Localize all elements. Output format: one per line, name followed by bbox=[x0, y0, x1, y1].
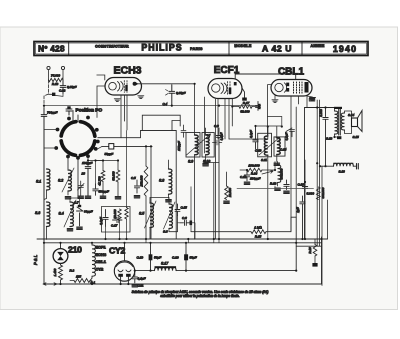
trimmer at Position PO bbox=[66, 109, 72, 115]
svg-text:R.14: R.14 bbox=[251, 172, 258, 176]
ground below S8 bbox=[166, 200, 172, 202]
tube CBL1 cathode circle bbox=[275, 83, 283, 91]
svg-text:S.4: S.4 bbox=[59, 212, 64, 216]
capacitor C13 bbox=[253, 126, 258, 149]
capacitor C6 bbox=[180, 220, 190, 225]
resistor 50.000 cathode bbox=[118, 209, 121, 221]
wire right edge vertical bbox=[321, 237, 323, 284]
svg-text:R.2: R.2 bbox=[70, 269, 75, 273]
svg-text:ECF1: ECF1 bbox=[96, 245, 107, 250]
svg-text:ECH3: ECH3 bbox=[96, 252, 107, 257]
wire switch left contact to bus bbox=[44, 129, 58, 131]
svg-text:S.6: S.6 bbox=[163, 230, 168, 234]
wire band top line A bbox=[37, 238, 328, 240]
trimmer pair padding caps bbox=[78, 181, 85, 195]
wire rail from S16 down bbox=[325, 165, 327, 167]
tube ECF1 grid arcs bbox=[221, 83, 227, 94]
svg-text:600.000: 600.000 bbox=[321, 187, 325, 198]
svg-text:A 42 U: A 42 U bbox=[262, 44, 292, 54]
ground below S2 bbox=[65, 197, 71, 199]
svg-text:0,1µF: 0,1µF bbox=[220, 132, 224, 140]
tube ECF1 screen square bbox=[234, 82, 237, 85]
capacitor below pot bbox=[284, 180, 289, 190]
wire band right inner segment bbox=[296, 245, 321, 247]
rotary wafer switch ring bbox=[61, 122, 95, 156]
resistor 10.000 right of S10 bbox=[225, 186, 229, 200]
svg-text:ECH3: ECH3 bbox=[113, 65, 141, 77]
capacitor C20 50uF bbox=[184, 254, 188, 260]
tube ECF1 pin wires bbox=[218, 99, 232, 140]
wire B+ rail pair bbox=[317, 100, 319, 246]
tube ECH3 anode bar bbox=[125, 85, 127, 91]
wire switch stem bus down-left bbox=[43, 129, 45, 131]
antenna terminal A bbox=[47, 66, 50, 69]
svg-text:10.000: 10.000 bbox=[228, 188, 232, 198]
svg-text:C.21: C.21 bbox=[138, 284, 144, 288]
svg-text:S.17: S.17 bbox=[161, 262, 169, 266]
capacitor C19 56uF bbox=[149, 254, 153, 260]
svg-text:S.1: S.1 bbox=[36, 180, 41, 184]
trimmer C10 bbox=[109, 144, 114, 149]
svg-text:1.400: 1.400 bbox=[53, 268, 57, 276]
tube CBL1 grid dotted electrodes bbox=[294, 82, 303, 94]
wire switch rotor stem up bbox=[73, 111, 78, 123]
capacitor 0,1uF CY2 bbox=[132, 271, 137, 283]
wire screen rail bbox=[295, 107, 297, 217]
capacitor 0,1uF at S10 bbox=[216, 128, 221, 239]
capacitor tone 0,1uF across primary bbox=[323, 108, 328, 167]
ground below 100uuF bbox=[85, 196, 91, 198]
capacitor C22 0,05uF bbox=[60, 80, 66, 93]
wire switch contact row 1 right bbox=[98, 131, 176, 239]
resistor right cathode bbox=[125, 208, 128, 220]
wire mid verticals to band bbox=[88, 160, 118, 162]
svg-text:50µµF: 50µµF bbox=[105, 152, 114, 156]
tube ECF1 grid dashed electrodes bbox=[228, 82, 231, 96]
resistor feedback right bbox=[313, 245, 317, 257]
svg-text:100µµF: 100µµF bbox=[82, 161, 92, 165]
wire mid AVC bus bbox=[44, 105, 258, 107]
terminal blob junction antenna bbox=[52, 93, 55, 96]
svg-text:Position PO: Position PO bbox=[76, 108, 103, 114]
capacitor C15 bbox=[175, 204, 180, 216]
svg-text:S.2: S.2 bbox=[58, 179, 63, 183]
wire rail right outer bbox=[321, 166, 323, 285]
coil S2 tunable bbox=[68, 170, 71, 191]
svg-text:0,05µF: 0,05µF bbox=[67, 85, 77, 89]
svg-text:PARIS: PARIS bbox=[190, 47, 203, 51]
S9 coil bbox=[195, 135, 199, 155]
svg-text:75.000: 75.000 bbox=[51, 74, 61, 78]
tube CBL1 envelope bbox=[271, 80, 312, 97]
tube CBL1 grid arc bbox=[284, 83, 286, 93]
arrow mains bottom-left bbox=[43, 283, 57, 285]
S12 trimmer caps bbox=[286, 128, 295, 137]
wire oscillator box inner bbox=[141, 121, 181, 131]
ground top of rails bbox=[309, 99, 315, 101]
wire S5 S6 bottoms bbox=[150, 198, 186, 240]
tube ECH3 cathode circle bbox=[109, 82, 117, 90]
speaker S15 bbox=[352, 118, 358, 127]
svg-text:S.14: S.14 bbox=[348, 113, 355, 117]
svg-text:0,1µF: 0,1µF bbox=[249, 130, 253, 138]
svg-text:28: 28 bbox=[81, 172, 86, 176]
output transformer secondary bbox=[341, 113, 344, 130]
tube CBL1 pin wires bbox=[275, 96, 307, 232]
output transformer primary bbox=[335, 111, 338, 134]
transformer bottom terminal bbox=[335, 136, 340, 138]
resistor 30.000 right bbox=[317, 187, 321, 200]
svg-text:C.6: C.6 bbox=[182, 216, 187, 220]
svg-text:0,1µF: 0,1µF bbox=[138, 277, 147, 281]
svg-text:C.12: C.12 bbox=[240, 175, 247, 179]
wire det out bbox=[274, 162, 276, 189]
capacitor on AVC bus at CBL1 bbox=[256, 102, 261, 111]
wire C6 link bbox=[178, 223, 196, 239]
ground below S12 bbox=[274, 163, 280, 165]
svg-text:52.000: 52.000 bbox=[240, 110, 250, 114]
tube ECF1 envelope bbox=[208, 79, 242, 99]
svg-text:C.22: C.22 bbox=[59, 89, 66, 93]
svg-text:C.8: C.8 bbox=[214, 124, 219, 128]
svg-text:50.000: 50.000 bbox=[112, 171, 116, 181]
wire AVC vertical from S9 bbox=[190, 187, 192, 232]
S11-S12 tuning arrow bbox=[259, 137, 280, 155]
resistor 75.000 R13 bbox=[49, 78, 64, 81]
wire ECH3 plate to S9 bbox=[137, 83, 195, 85]
svg-text:C.16: C.16 bbox=[298, 183, 305, 187]
wire ECH3 left frame bbox=[97, 75, 105, 118]
ground below 50.000 bbox=[115, 197, 121, 199]
wire ECF1 grid drop to S10 bbox=[205, 97, 220, 239]
wire detector feed bus bbox=[237, 188, 314, 190]
IF can S11 box bbox=[258, 133, 272, 157]
resistor 41.700 bbox=[101, 171, 105, 182]
svg-text:99µµF: 99µµF bbox=[84, 210, 93, 214]
svg-text:C.17: C.17 bbox=[111, 224, 118, 228]
ground below C7 bbox=[77, 227, 83, 229]
tube ECH3 plate dot bbox=[133, 82, 137, 86]
wire switch contact row 2 right with trimmer C10 bbox=[102, 146, 151, 238]
ground below CBL1 cathode bbox=[272, 100, 278, 103]
pilot lamp 210 bbox=[53, 249, 68, 264]
ground below CBL1 pin bbox=[310, 98, 316, 101]
coil S6 bbox=[169, 204, 172, 229]
title block frame bbox=[34, 42, 368, 56]
svg-text:CONSTRUCTEUR: CONSTRUCTEUR bbox=[95, 45, 129, 49]
wire osc coupling caps row bbox=[96, 161, 104, 185]
tube CBL1 screen squares bbox=[286, 83, 289, 87]
svg-text:250.000: 250.000 bbox=[140, 175, 144, 187]
wire switch bottom contacts down bbox=[68, 157, 88, 197]
ground below ECH3 left bbox=[114, 99, 120, 102]
svg-text:C.5: C.5 bbox=[131, 176, 136, 180]
ground below C12 bbox=[244, 182, 250, 184]
ground below 10.000 bbox=[224, 201, 230, 203]
wire switch row3 bbox=[98, 146, 103, 149]
wire ECH3 cathode network box bbox=[102, 207, 131, 233]
svg-text:R.16: R.16 bbox=[308, 247, 312, 254]
wire switch left lower contact bbox=[44, 147, 56, 149]
svg-text:C.13: C.13 bbox=[255, 149, 262, 153]
wire band bottom line bbox=[44, 283, 322, 285]
svg-text:500.000: 500.000 bbox=[280, 168, 284, 179]
svg-text:CBL1: CBL1 bbox=[96, 259, 107, 264]
wire S12 to CBL1 grid bbox=[268, 117, 282, 127]
svg-text:C.14: C.14 bbox=[280, 148, 287, 152]
svg-text:PHILIPS: PHILIPS bbox=[141, 43, 182, 53]
svg-text:0,1µF: 0,1µF bbox=[285, 132, 289, 140]
capacitor 500uuF bbox=[93, 184, 98, 195]
svg-text:R.13: R.13 bbox=[52, 82, 59, 86]
resistor 1.400 bbox=[59, 265, 63, 280]
resistor 250.000 bbox=[144, 166, 148, 196]
resistor 1 Mohm bbox=[251, 230, 266, 234]
wire right mid vertical x327 bbox=[327, 200, 329, 239]
coil S5 bbox=[150, 203, 153, 228]
ground below S10 bbox=[203, 164, 209, 166]
S10 side cap bbox=[213, 140, 222, 145]
ground below C5 bbox=[134, 196, 140, 198]
volume potentiometer coil bbox=[278, 165, 281, 183]
coil S8 bbox=[169, 169, 172, 194]
resistor 100.000 detector bbox=[247, 168, 262, 172]
resistor R17 52.000 bbox=[239, 105, 252, 109]
title block divider after PARIS bbox=[228, 42, 230, 56]
trimmer C7 99uuF bbox=[77, 207, 84, 226]
svg-text:CY2: CY2 bbox=[96, 267, 105, 272]
svg-text:C.20: C.20 bbox=[172, 256, 179, 260]
svg-text:500µµF: 500µµF bbox=[99, 190, 109, 194]
wire ECH3 pin3 long drop bbox=[121, 121, 125, 138]
resistor 50.000 osc bbox=[116, 170, 120, 182]
IF can S12 box bbox=[274, 137, 285, 156]
wire band top line B bbox=[44, 242, 322, 244]
coil S3 bbox=[47, 202, 50, 227]
S12 coil bbox=[277, 138, 280, 155]
wire osc grid drops bbox=[152, 145, 154, 147]
terminal below Rfb bbox=[314, 256, 316, 263]
tube ECH3 grid arcs bbox=[118, 82, 124, 92]
junction dots mid bbox=[43, 83, 336, 183]
ground below volume pot bbox=[275, 188, 281, 190]
svg-text:210: 210 bbox=[68, 245, 82, 255]
hum-bucking coil S16 bbox=[334, 163, 354, 166]
S9-S10 tuning arrow bbox=[187, 134, 211, 155]
filter choke S17 bbox=[155, 268, 177, 271]
wire band verticals misc bbox=[146, 202, 268, 243]
svg-text:S.16: S.16 bbox=[339, 170, 346, 174]
capacitor 100uuF bbox=[85, 167, 91, 196]
svg-text:MODELE: MODELE bbox=[234, 44, 251, 48]
tube ECF1 anode bar bbox=[229, 88, 232, 95]
svg-text:S.5: S.5 bbox=[139, 212, 144, 216]
ground below ECH3 right bbox=[138, 96, 144, 99]
tube CBL1 anode plate bbox=[305, 82, 309, 93]
tube ECH3 grid dashed electrodes bbox=[124, 81, 127, 93]
capacitor 0,1 osc bbox=[134, 180, 139, 193]
svg-text:R.15: R.15 bbox=[255, 235, 262, 239]
tube ECF1 cathode circle bbox=[212, 84, 220, 92]
svg-text:S.15: S.15 bbox=[353, 135, 360, 139]
svg-text:700µµF: 700µµF bbox=[47, 111, 57, 115]
svg-text:100µµF: 100µµF bbox=[250, 177, 260, 181]
wire left edge vertical bbox=[43, 243, 45, 284]
IF can S10 box bbox=[202, 133, 214, 158]
tube ECH3 pin wires bbox=[121, 95, 127, 138]
svg-text:115µµF: 115µµF bbox=[177, 141, 181, 151]
arrow volume pot bbox=[262, 170, 273, 174]
ground below pot cap bbox=[284, 191, 290, 193]
rectifier CY2 bbox=[114, 261, 134, 281]
svg-text:1940: 1940 bbox=[333, 44, 357, 54]
wire cathode net verticals bbox=[106, 131, 127, 240]
svg-text:0,1µF: 0,1µF bbox=[99, 217, 103, 225]
ground below 0,1uF CY2 bbox=[132, 285, 138, 287]
capacitor C16 bbox=[302, 182, 307, 192]
output transformer core bbox=[339, 109, 341, 136]
title block divider after No 428 bbox=[68, 42, 70, 56]
S16 right cap bbox=[357, 164, 359, 170]
title block divider after A 42 U bbox=[301, 42, 303, 56]
capacitor 700uuF on left bus bbox=[41, 108, 47, 243]
S9 trimmer cap bbox=[181, 125, 186, 137]
svg-text:0,05µF: 0,05µF bbox=[176, 91, 186, 95]
svg-text:50.000: 50.000 bbox=[113, 209, 117, 219]
resistor 125 R1 bbox=[74, 279, 90, 283]
junction dots band bbox=[43, 238, 323, 285]
wire antenna down-lead bbox=[44, 80, 49, 108]
rotary switch contact dots bbox=[54, 116, 99, 160]
S11 coil bbox=[264, 136, 267, 155]
svg-text:5.000: 5.000 bbox=[307, 192, 315, 196]
ground below padding trimmer bbox=[78, 196, 84, 198]
ground below S4 bbox=[67, 229, 73, 231]
capacitor ECF1 cathode blob bbox=[242, 98, 247, 101]
svg-text:56µF: 56µF bbox=[154, 256, 162, 260]
svg-text:C.19: C.19 bbox=[137, 256, 144, 260]
svg-text:100.000: 100.000 bbox=[248, 164, 259, 168]
capacitor C18 2uF bbox=[300, 196, 305, 239]
svg-text:CBL1: CBL1 bbox=[278, 67, 305, 78]
svg-text:S.3: S.3 bbox=[35, 211, 40, 215]
wire ECF1 plate lead with cathode cap bbox=[242, 88, 245, 98]
wire CBL1 top cap feed bbox=[235, 74, 296, 80]
svg-text:41.700: 41.700 bbox=[98, 176, 102, 186]
capacitor C 100uuF det bbox=[244, 170, 249, 181]
svg-text:S.9: S.9 bbox=[188, 160, 193, 164]
svg-text:S.8: S.8 bbox=[159, 179, 164, 183]
svg-text:C.7: C.7 bbox=[74, 201, 79, 205]
wire CBL1 grid from left bbox=[268, 85, 272, 135]
terminal block right of R17 bbox=[258, 104, 261, 109]
wire detector rail bbox=[304, 160, 306, 239]
svg-text:R.17: R.17 bbox=[243, 101, 250, 105]
svg-text:R.13: R.13 bbox=[270, 182, 277, 186]
ground below 41.700 bbox=[100, 196, 106, 198]
capacitor 0,1uF cathode bbox=[103, 210, 108, 227]
wire CY2 cathode row bbox=[135, 243, 186, 271]
earth terminal T bbox=[61, 66, 64, 69]
coil S4 tunable bbox=[70, 202, 73, 227]
wire S4 top link bbox=[70, 196, 80, 205]
svg-text:S.11: S.11 bbox=[261, 158, 267, 162]
svg-text:substituée pour utiliser la po: substituée pour utiliser la polarisation… bbox=[160, 294, 239, 298]
svg-text:C.4: C.4 bbox=[163, 102, 168, 106]
heater chain coil bbox=[92, 245, 95, 276]
coil S1 bbox=[47, 169, 50, 190]
svg-text:ANNEE: ANNEE bbox=[310, 44, 324, 48]
svg-text:50µF: 50µF bbox=[190, 256, 198, 260]
svg-text:2µF: 2µF bbox=[296, 207, 300, 213]
tube ECH3 envelope bbox=[105, 78, 142, 96]
svg-text:1 MΩ: 1 MΩ bbox=[254, 226, 262, 230]
IF can S9 box bbox=[186, 133, 200, 158]
svg-text:125: 125 bbox=[76, 275, 81, 279]
wire top S11 link bbox=[229, 126, 282, 139]
capacitor C17 bbox=[113, 217, 123, 222]
svg-text:S.13: S.13 bbox=[326, 137, 333, 141]
wire AVC 1 Mohm row bbox=[191, 217, 296, 232]
svg-text:Nº 428: Nº 428 bbox=[38, 45, 65, 54]
capacitor C4 0,05uF bbox=[169, 85, 175, 106]
wire CBL1 anode to transformer bbox=[305, 108, 335, 240]
wire oscillator box outer bbox=[142, 115, 180, 130]
svg-text:P & L: P & L bbox=[33, 254, 38, 265]
wire choke out to right bbox=[176, 217, 296, 271]
S10 coil bbox=[206, 135, 210, 155]
svg-text:CY2: CY2 bbox=[109, 246, 126, 256]
svg-text:C.15: C.15 bbox=[181, 206, 188, 210]
